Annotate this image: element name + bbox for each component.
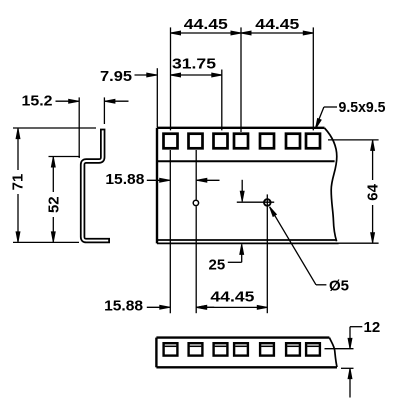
dim 44.45 ext line at hole1 center <box>170 27 172 130</box>
strip square hole 3 <box>214 343 228 355</box>
square hole 7 <box>306 134 320 149</box>
dim 44.45 arrow left <box>171 31 181 35</box>
dim 7.95 arrow tail <box>135 74 157 76</box>
front bottom edge lower <box>157 242 339 244</box>
hole1 centerline down <box>169 150 171 313</box>
dim 25 leader jog <box>228 261 242 263</box>
strip square hole 1 <box>164 343 178 355</box>
dim 15.2 right extension line <box>103 97 105 124</box>
square hole 5 <box>260 134 274 149</box>
dim 44.45 bottom arrow right <box>257 306 267 310</box>
dim 64 arrow up <box>371 140 375 150</box>
svg-text:31.75: 31.75 <box>172 55 216 72</box>
dim Ø5 leader horizontal <box>316 284 326 286</box>
front outline top edge <box>157 127 325 129</box>
dim 64 bottom extension line <box>336 242 379 244</box>
dim 25 upper arrow (points down) <box>240 191 244 201</box>
square hole 2 <box>189 134 203 149</box>
dim 44.45 line (spans both) <box>171 32 314 34</box>
svg-text:25: 25 <box>209 256 226 273</box>
front break line (wavy right edge) <box>325 128 337 241</box>
dim 31.75 arrow left <box>171 73 181 77</box>
dim 15.88 top: left arrow tail <box>147 179 170 181</box>
svg-text:44.45: 44.45 <box>255 16 299 33</box>
dim 15.2 left arrow tail <box>56 100 79 102</box>
dim 15.2 right arrow tail <box>105 100 129 102</box>
profile inner white core <box>83 130 109 240</box>
strip top edge <box>156 336 329 338</box>
dim 9.5x9.5 leader diagonal <box>316 107 324 128</box>
dim 71 bottom extension line <box>13 241 79 243</box>
dim 12 lower arrow tail <box>349 369 351 398</box>
dim 12 reference line at strip inner edge <box>325 348 354 350</box>
dim 44.45 bottom arrow left <box>196 306 206 310</box>
strip hole 7 inner line <box>307 345 319 347</box>
svg-text:15.88: 15.88 <box>104 298 143 315</box>
svg-text:44.45: 44.45 <box>184 16 228 33</box>
svg-text:44.45: 44.45 <box>210 289 254 306</box>
dim 31.75 ext line at hole3 center <box>221 70 223 131</box>
dim 25 upper arrow tail <box>241 180 243 202</box>
hole2/circle centerline upper <box>195 150 197 200</box>
dim 71 top extension line <box>13 127 96 129</box>
strip hole 1 inner line <box>165 345 177 347</box>
dim 15.2 left extension line <box>78 97 80 158</box>
strip square hole 6 <box>286 343 300 355</box>
dim 15.88 bottom left arrow (points right) <box>160 305 170 309</box>
dim 64 arrow down <box>371 233 375 243</box>
dim 15.88 bottom right arrow tail <box>197 306 215 308</box>
strip hole 5 inner line <box>261 345 273 347</box>
dim 15.88 bottom left arrow tail <box>147 306 170 308</box>
Ø5 hole vertical centerline <box>266 194 268 313</box>
svg-text:15.88: 15.88 <box>105 171 144 188</box>
dim 71 arrow up <box>16 129 20 139</box>
strip square hole 5 <box>260 343 274 355</box>
svg-text:Ø5: Ø5 <box>329 277 349 294</box>
dim 64 top extension line <box>328 139 379 141</box>
round hole (plain circle) <box>193 200 198 205</box>
strip hole 3 inner line <box>215 345 227 347</box>
square hole 3 <box>214 134 228 149</box>
strip square hole 2 <box>189 343 203 355</box>
dim 15.2 left arrow (points right at x=79.2) <box>69 99 79 103</box>
dim 44.45 arrow right <box>303 31 313 35</box>
dim Ø5 arrowhead at hole <box>268 206 276 217</box>
svg-text:52: 52 <box>45 196 62 213</box>
dim 44.45 ext line at hole4 center <box>240 27 242 132</box>
dim 15.88 top right arrow (points left) <box>197 178 207 182</box>
strip bottom edge <box>156 366 337 368</box>
dim 52 line lower <box>52 217 54 242</box>
dim 9.5x9.5 leader horizontal <box>324 106 337 108</box>
square hole 4 <box>234 134 248 149</box>
front bottom bend line upper <box>157 239 336 241</box>
svg-text:9.5x9.5: 9.5x9.5 <box>339 99 386 116</box>
svg-text:64: 64 <box>364 183 381 200</box>
dim 71 arrow down <box>16 232 20 242</box>
dim 15.88 bottom right arrow (points left) <box>197 305 207 309</box>
svg-text:15.2: 15.2 <box>22 93 53 110</box>
dim 12 bottom tick <box>341 367 354 369</box>
dim 25 lower arrow tail <box>241 244 243 262</box>
dim 44.45 bottom line <box>196 306 267 308</box>
square hole 1 <box>164 134 178 149</box>
dim 15.2 right arrow (points left at x=104.4) <box>105 99 115 103</box>
dim 12 leader horizontal <box>350 326 362 328</box>
Ø5 hole crosshair circle <box>264 199 271 206</box>
dim 52 arrow down <box>51 232 55 242</box>
profile outer (double-line sheet metal) <box>83 129 110 241</box>
svg-text:71: 71 <box>10 174 27 191</box>
dim 15.88 top left arrow (points right) <box>160 178 170 182</box>
dim 64 line lower <box>372 205 374 243</box>
dim 31.75 line <box>171 74 222 76</box>
dim Ø5 leader diagonal <box>270 207 316 285</box>
strip hole 6 inner line <box>287 345 299 347</box>
front outline left edge <box>156 128 158 244</box>
dim 15.88 top right arrow tail <box>197 179 220 181</box>
dim 7.95 ext line (left edge extended up) <box>156 68 158 127</box>
dim 25 lower arrow (points up at bottom edge) <box>240 244 244 254</box>
hole2/circle centerline lower <box>195 206 197 313</box>
dim 52 line upper <box>52 157 54 192</box>
strip square hole 7 <box>306 343 320 355</box>
dim 31.75 arrow right <box>212 73 222 77</box>
dim 9.5x9.5 arrowhead at hole corner <box>314 119 321 130</box>
dim 71 line upper <box>17 129 19 170</box>
dim 52 top extension line <box>49 156 81 158</box>
svg-text:7.95: 7.95 <box>100 68 132 85</box>
dim 12 lower arrow (points up) <box>348 369 352 379</box>
square hole 6 <box>286 134 300 149</box>
dim 12 upper arrow (points down) <box>348 338 352 348</box>
svg-text:12: 12 <box>364 319 381 336</box>
Ø5 hole horizontal centerline + 25 tick <box>237 201 274 203</box>
dim 52 arrow up <box>51 157 55 167</box>
strip hole 4 inner line <box>235 345 247 347</box>
dim 12 upper arrow tail <box>349 327 351 349</box>
strip left edge <box>155 338 157 368</box>
dim 44.45 ext line at hole7 center <box>312 27 314 130</box>
strip break edge (right) <box>329 338 337 368</box>
dim 71 line lower <box>17 194 19 242</box>
dim 64 line upper <box>372 140 374 180</box>
front fold line below holes <box>157 160 335 162</box>
dim 44.45 arrows middle <box>231 31 241 35</box>
strip square hole 4 <box>234 343 248 355</box>
strip hole 2 inner line <box>190 345 202 347</box>
dim 7.95 arrow (points right) <box>147 73 157 77</box>
